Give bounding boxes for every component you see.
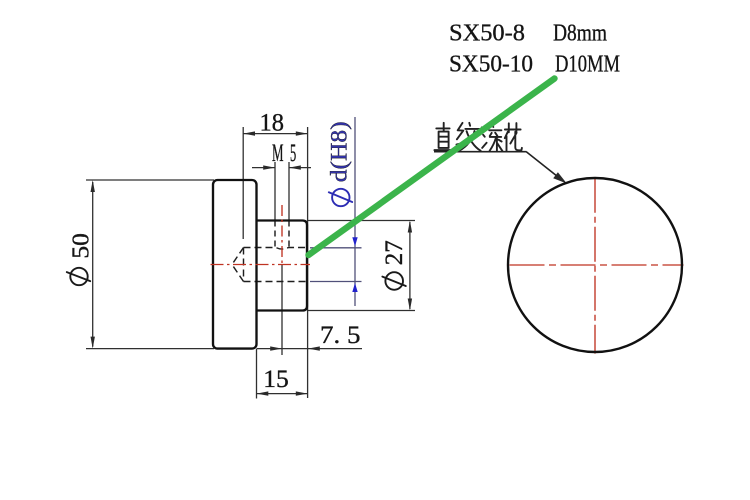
svg-text:SX50-10: SX50-10 — [449, 51, 533, 78]
svg-text:27: 27 — [380, 240, 408, 265]
svg-text:SX50-8: SX50-8 — [449, 20, 525, 47]
svg-text:15: 15 — [263, 365, 289, 393]
svg-text:D10MM: D10MM — [555, 51, 620, 78]
svg-text:7. 5: 7. 5 — [320, 321, 361, 349]
svg-text:M: M — [272, 139, 284, 167]
svg-text:50: 50 — [67, 233, 94, 259]
svg-text:18: 18 — [260, 107, 285, 136]
svg-text:5: 5 — [290, 139, 296, 167]
svg-text:d(H8): d(H8) — [327, 121, 352, 182]
svg-text:D8mm: D8mm — [553, 20, 607, 47]
